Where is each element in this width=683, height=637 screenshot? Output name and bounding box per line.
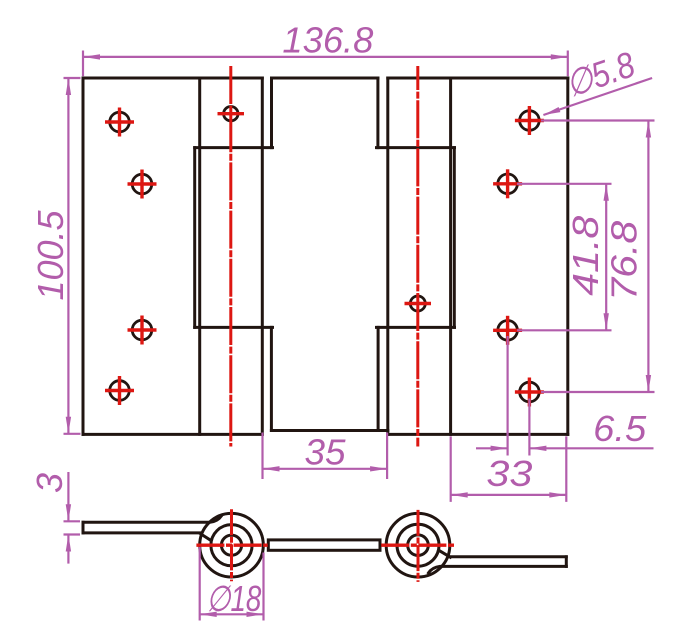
centerline left column: [229, 66, 232, 447]
strap right edge upper: [376, 78, 379, 148]
hole right B: [498, 174, 518, 194]
dim 100.5 line: [67, 78, 69, 434]
dim 3 line lower: [67, 535, 69, 564]
right leaf strip end cap: [565, 557, 568, 567]
dim 3 line upper: [67, 472, 69, 521]
svg-text:35: 35: [305, 432, 347, 473]
left leaf strip end cap: [82, 522, 85, 533]
arrow 18 left: [200, 612, 217, 617]
dim 35 extension right: [386, 433, 388, 480]
arrow 35 left: [263, 466, 280, 471]
barrel 1 inner circle: [221, 535, 241, 555]
hole left A: [110, 112, 130, 132]
left knuckle upper division: [195, 146, 273, 149]
left knuckle column right edge: [261, 78, 264, 434]
svg-text:41.8: 41.8: [565, 216, 606, 296]
dim 33 line: [451, 494, 567, 496]
arrow 35 right: [370, 466, 387, 471]
centerline right column: [416, 66, 419, 447]
cross hole right C: [493, 329, 522, 332]
right knuckle upper division: [377, 146, 455, 149]
barrel 2 centerline horizontal: [381, 544, 455, 547]
barrel 1 centerline vertical: [230, 509, 233, 581]
left leaf strip bottom line: [83, 531, 201, 534]
dim 35 extension left: [261, 433, 263, 480]
arrow 136.8 right: [551, 54, 568, 59]
dim 136.8 extension right: [567, 51, 569, 77]
leader dia 5.8: [543, 78, 652, 115]
cross hole left D: [105, 389, 134, 392]
barrel 1 centerline horizontal: [196, 544, 267, 547]
pin hole left tick: [218, 112, 245, 115]
strap bottom edge: [271, 429, 387, 432]
arrow 76.8 bottom: [646, 375, 651, 392]
strap left edge upper: [270, 78, 273, 148]
svg-text:∅5.8: ∅5.8: [560, 43, 640, 105]
right knuckle mid extra edge: [453, 148, 456, 328]
dim 3 extension bottom: [64, 533, 81, 535]
arrow 41.8 top: [604, 184, 609, 201]
svg-text:76.8: 76.8: [604, 221, 645, 301]
arrow leader 5.8: [543, 107, 561, 118]
pin hole right column: [410, 296, 425, 311]
dim 18 extension left: [199, 547, 201, 621]
hole left C: [132, 320, 152, 340]
right knuckle column right edge: [449, 78, 452, 434]
arrow 100.5 bottom: [66, 417, 71, 434]
dim 41.8 extension top: [517, 183, 612, 185]
left knuckle mid extra edge: [193, 148, 196, 328]
dim 100.5 extension top: [64, 77, 81, 79]
hole left B: [132, 174, 152, 194]
svg-text:33: 33: [486, 453, 532, 494]
right knuckle column left edge: [386, 78, 389, 434]
dim 136.8 line: [83, 56, 568, 58]
left leaf strip top line: [83, 516, 222, 523]
cross hole left B: [128, 182, 157, 185]
top edge middle segment (strap): [272, 77, 378, 80]
arrow 18 right: [247, 612, 264, 617]
dim 6.5 line left part: [476, 447, 508, 449]
dim 41.8 line: [605, 184, 607, 330]
arrow 33 right: [549, 492, 566, 497]
left knuckle column left edge: [198, 78, 201, 434]
barrel 1 outer circle: [200, 513, 264, 577]
svg-text:6.5: 6.5: [593, 408, 647, 449]
arrow 6.5 left: [491, 446, 508, 451]
right leaf strip bottom line: [429, 566, 567, 573]
cross hole left A: [105, 120, 134, 123]
arrow 41.8 bottom: [604, 313, 609, 330]
barrel 2 inner circle: [408, 535, 429, 556]
arrow 3 top: [66, 504, 71, 521]
dim 18 line: [200, 613, 264, 615]
hole right C: [498, 321, 518, 341]
svg-text:100.5: 100.5: [30, 210, 71, 301]
pin hole right tick: [405, 302, 432, 305]
dim 35 line: [263, 468, 388, 470]
center strap side view: [268, 540, 380, 550]
arrow 100.5 top: [66, 78, 71, 95]
barrel 2 outer circle: [386, 513, 450, 577]
hole right D: [520, 382, 540, 402]
right leaf strip top line: [450, 555, 566, 558]
cross hole left C: [128, 328, 157, 331]
bottom edge right segment: [388, 433, 568, 436]
hole left D: [110, 381, 130, 401]
cross hole right B: [493, 182, 522, 185]
left leaf curl transition: [200, 534, 211, 541]
barrel 2 middle circle: [397, 524, 439, 566]
dim 100.5 extension bottom: [64, 433, 81, 435]
left knuckle lower division: [195, 326, 273, 329]
cross hole right A: [515, 119, 544, 122]
dim 33 extension left: [450, 436, 452, 502]
strap right edge lower: [377, 327, 380, 430]
svg-text:3: 3: [29, 473, 70, 493]
arrow 136.8 left: [83, 54, 100, 59]
dim 41.8 extension bottom: [517, 329, 612, 331]
left plate left edge: [82, 78, 85, 434]
dim 76.8 extension bottom: [541, 391, 655, 393]
svg-text:∅18: ∅18: [206, 578, 261, 619]
pin hole left column: [224, 107, 238, 121]
strap left edge lower: [270, 327, 273, 430]
top edge right segment: [388, 77, 568, 80]
dim 6.5 line right part: [529, 447, 653, 449]
dim 136.8 extension left: [82, 51, 84, 77]
bottom edge left segment: [83, 433, 262, 436]
cross hole right D: [515, 390, 544, 393]
barrel 2 centerline vertical: [417, 510, 420, 582]
dim 76.8 line: [647, 121, 649, 393]
dim 6.5 extension left: [507, 336, 509, 456]
arrow 6.5 right: [529, 446, 546, 451]
barrel 1 middle circle: [211, 525, 252, 566]
dim 18 extension right: [262, 553, 264, 621]
right plate right edge: [566, 78, 569, 434]
top edge left segment: [83, 77, 262, 80]
dim 3 extension top: [64, 520, 81, 522]
arrow 33 left: [451, 492, 468, 497]
right knuckle lower division: [377, 326, 455, 329]
hole right A: [520, 111, 540, 131]
arrow 3 bottom: [66, 535, 71, 552]
dim 76.8 extension top: [541, 119, 655, 121]
svg-text:136.8: 136.8: [282, 20, 373, 61]
arrow 76.8 top: [646, 121, 651, 138]
dim 33 extension right: [565, 436, 567, 502]
dim 6.5 extension right: [528, 399, 530, 456]
right leaf curl transition: [439, 550, 451, 557]
